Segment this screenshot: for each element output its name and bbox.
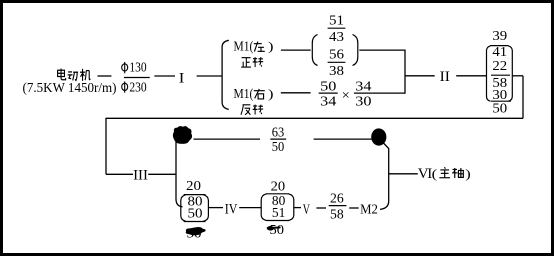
wire shaft I to fork <box>197 75 223 77</box>
svg-text:34: 34 <box>355 79 371 94</box>
svg-text:51: 51 <box>329 13 344 28</box>
wire gear ratio to join vertical <box>373 92 405 94</box>
clutch M3 blob <box>173 126 192 144</box>
svg-text:(: ( <box>432 166 438 181</box>
wire down right side <box>522 76 524 119</box>
gear group (51/43 over 56/38) <box>312 13 358 79</box>
shaft VI main spindle label VI(主轴) <box>418 166 471 182</box>
svg-text:130: 130 <box>129 60 147 75</box>
wire clutch M3 to gear ratio 63/50 <box>194 138 261 140</box>
svg-text:50: 50 <box>188 207 203 222</box>
svg-text:43: 43 <box>329 30 344 45</box>
wire gear ratio to clutch M4 <box>314 138 372 140</box>
clutch M1 (left) forward label <box>234 39 274 68</box>
vertical wire from clutch M3 down to gear group <box>176 142 183 207</box>
motor label 电动机 <box>58 68 91 80</box>
svg-text:39: 39 <box>492 29 507 44</box>
svg-text:20: 20 <box>186 179 201 194</box>
wire M1 left to gear group <box>281 49 311 51</box>
wire branch to shaft VI label <box>389 173 418 175</box>
gear ratio 26/58 <box>329 191 347 222</box>
wire to shaft III <box>106 173 133 175</box>
svg-text:M1(: M1( <box>234 39 254 54</box>
wire gear ratio to clutch M2 <box>349 207 359 209</box>
svg-text:50: 50 <box>492 101 507 116</box>
crossed-out 50 under middle gear group <box>267 223 284 238</box>
svg-text:M1(: M1( <box>234 86 254 101</box>
gear ratio 50/34 x 34/30 <box>319 79 373 109</box>
svg-text:41: 41 <box>492 45 507 60</box>
svg-text:): ) <box>268 86 274 101</box>
svg-text:I: I <box>179 70 185 86</box>
svg-text:VI: VI <box>418 166 433 182</box>
clutch M1 (right) reverse label <box>234 86 274 115</box>
wire shaft V to gear ratio 26/58 <box>316 207 326 209</box>
wire join to shaft II <box>405 75 435 77</box>
wire gear group to shaft IV <box>208 207 223 209</box>
svg-text:51: 51 <box>272 206 285 221</box>
wire shaft II to gear group <box>456 75 486 77</box>
wire clutch M4 to main shaft vertical <box>380 143 389 210</box>
fork brace to M1 positions <box>222 40 229 109</box>
wire shaft IV to middle gear group <box>239 207 261 209</box>
svg-text:20: 20 <box>271 180 286 195</box>
svg-text:(7.5KW 1450r/m): (7.5KW 1450r/m) <box>23 80 117 95</box>
svg-text:22: 22 <box>492 59 507 74</box>
svg-text:×: × <box>342 89 350 104</box>
svg-text:III: III <box>133 168 148 184</box>
svg-text:50: 50 <box>320 79 336 94</box>
wire shaft III to clutch vertical <box>148 173 176 175</box>
svg-text:230: 230 <box>129 79 147 94</box>
svg-text:): ) <box>268 39 274 54</box>
wire motor to pulley fraction <box>98 75 112 77</box>
gear group (39/41 22/58 30/50) <box>487 29 513 116</box>
wire down left side <box>105 118 107 174</box>
wire middle gear group to shaft V <box>294 207 301 209</box>
gear group (20 over 80/51) on shaft V input <box>261 180 294 222</box>
svg-text:30: 30 <box>355 95 371 110</box>
clutch M4 blob <box>371 128 386 145</box>
junction vertical joining both branches <box>404 50 406 94</box>
svg-text:IV: IV <box>225 201 238 217</box>
long wire across to left <box>106 117 524 119</box>
svg-text:26: 26 <box>330 191 344 206</box>
svg-text:38: 38 <box>329 64 344 79</box>
wire M1 right to gear ratio <box>281 92 311 94</box>
pulley ratio phi130/phi230 <box>122 60 150 95</box>
wire gear group out to right <box>513 75 523 77</box>
gear group (20 over 80/50) on shaft IV input <box>181 179 209 222</box>
svg-text:II: II <box>440 69 450 85</box>
svg-text:): ) <box>465 166 471 181</box>
svg-text:M2: M2 <box>360 201 378 216</box>
svg-text:50: 50 <box>270 223 285 238</box>
svg-text:56: 56 <box>329 48 344 63</box>
wire gear group to join vertical <box>359 49 405 51</box>
svg-text:34: 34 <box>320 95 336 110</box>
svg-text:63: 63 <box>272 126 285 141</box>
crossed-out 50 under gear group <box>186 227 206 242</box>
svg-text:V: V <box>303 202 310 218</box>
wire pulley to shaft I <box>154 75 175 77</box>
gear ratio 63/50 <box>270 126 286 155</box>
svg-text:50: 50 <box>272 140 285 155</box>
svg-text:58: 58 <box>330 208 344 223</box>
